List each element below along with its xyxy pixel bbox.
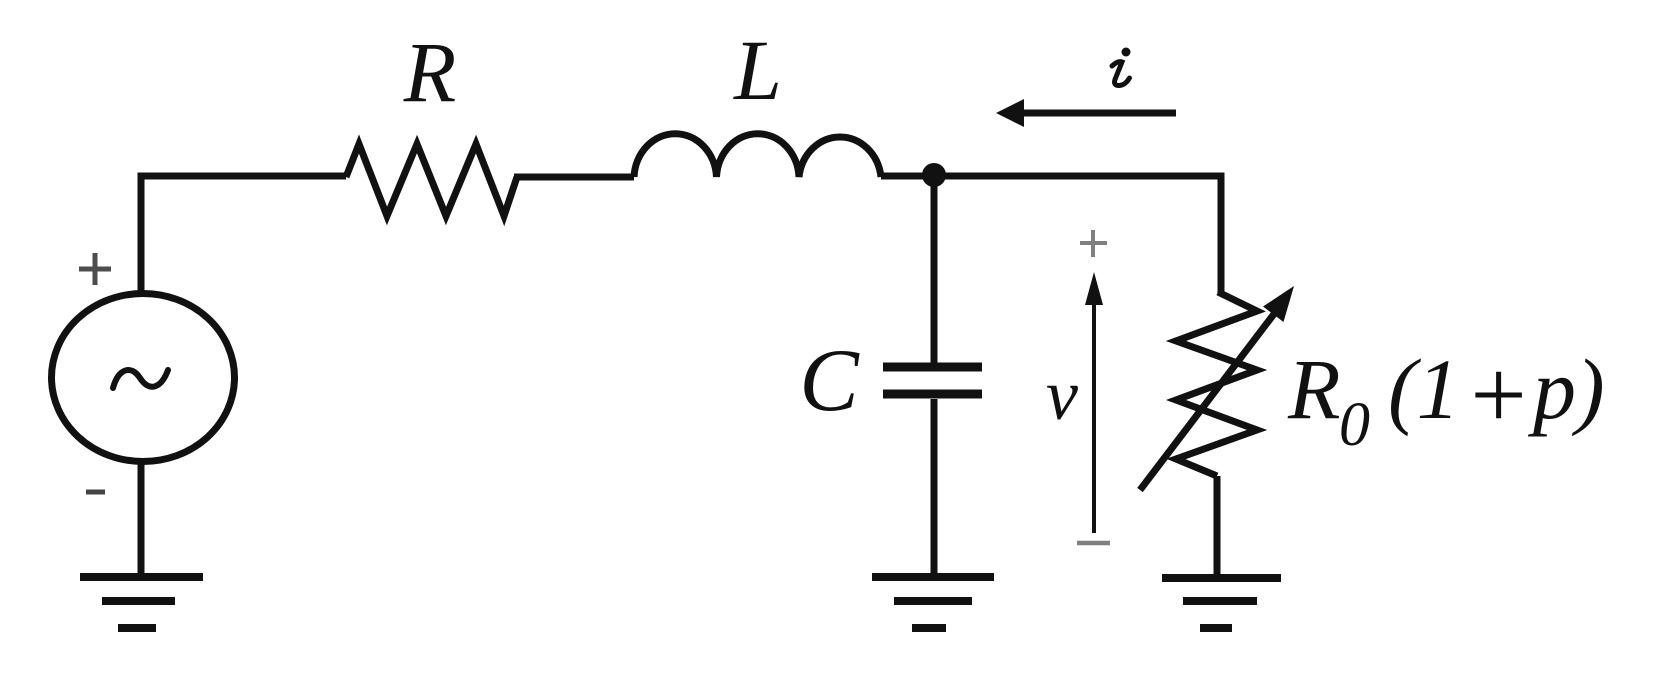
node A junction dot bbox=[922, 163, 946, 187]
svg-text:p): p) bbox=[1527, 341, 1605, 437]
label + (v polarity) bbox=[1080, 230, 1107, 257]
label + (source polarity) bbox=[79, 253, 111, 285]
capacitor C top plate bbox=[883, 363, 982, 372]
ground (rheostat) bbox=[1162, 578, 1281, 628]
ac source V1 circle bbox=[52, 294, 235, 462]
svg-text:C: C bbox=[799, 332, 860, 430]
capacitor C bottom plate bbox=[883, 390, 982, 399]
ac source sine symbol bbox=[113, 370, 168, 388]
rheostat R0 zigzag bbox=[1176, 292, 1257, 476]
svg-text:0: 0 bbox=[1339, 391, 1370, 459]
voltage arrow v bbox=[1092, 300, 1096, 533]
wire: capacitor bottom lead bbox=[931, 399, 938, 577]
svg-text:L: L bbox=[732, 22, 782, 118]
svg-text:R: R bbox=[403, 24, 457, 120]
wire: source bottom lead bbox=[138, 460, 145, 577]
inductor L bbox=[634, 134, 881, 177]
wire: resistor to inductor bbox=[514, 174, 634, 181]
current arrow i bbox=[1022, 110, 1176, 117]
ground (capacitor) bbox=[872, 577, 994, 628]
label i bbox=[1112, 48, 1131, 86]
label - (source polarity) bbox=[86, 490, 105, 495]
label − (v polarity) bbox=[1077, 541, 1110, 546]
wire: capacitor top lead bbox=[931, 176, 938, 363]
svg-text:+: + bbox=[1464, 339, 1531, 450]
svg-text:(1: (1 bbox=[1388, 341, 1460, 437]
svg-text:v: v bbox=[1046, 355, 1078, 435]
resistor R bbox=[346, 144, 517, 216]
wire: source top to resistor bbox=[141, 176, 346, 292]
ground (source) bbox=[80, 577, 203, 628]
wire: rheostat to ground bbox=[1214, 476, 1221, 578]
wire: inductor to node to right corner, down to rheostat bbox=[881, 176, 1221, 293]
rheostat arrow bbox=[1140, 310, 1277, 490]
svg-text:R: R bbox=[1287, 341, 1341, 437]
